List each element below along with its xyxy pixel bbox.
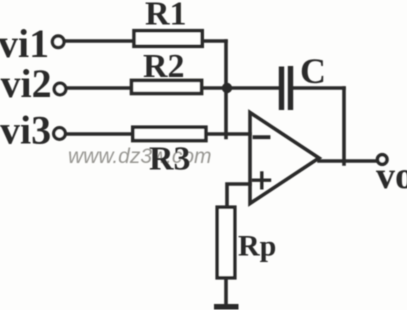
terminal vi2 [54,83,66,95]
svg-text:R1: R1 [145,0,187,33]
op-amp plus pin mark [260,173,263,188]
op-amp U1 [250,113,319,204]
resistor R2 [132,80,202,93]
resistor R3 [133,127,206,140]
junction node dot [222,83,232,93]
wire op-amp output to vo terminal [319,159,376,163]
ground [214,304,239,310]
wire Rp to ground [224,278,228,305]
svg-text:vo: vo [376,155,407,197]
resistor Rp [217,207,235,278]
svg-text:Rp: Rp [238,230,276,263]
wire vi2 terminal to R2 [67,86,131,90]
resistor R1 [134,31,202,47]
terminal vi1 [52,36,64,48]
svg-text:vi1: vi1 [0,21,49,66]
wire R3 to inverting input [208,132,251,136]
svg-text:vi2: vi2 [1,61,52,106]
wire vi1 terminal to R1 [65,39,133,43]
wire vi3 terminal to R3 [66,132,132,136]
svg-text:C: C [300,51,326,91]
wire bus vertical to inverting input [224,41,228,138]
wire feedback vertical [342,88,346,164]
terminal vi3 [54,128,66,140]
svg-text:R2: R2 [143,48,185,85]
terminal vo [377,155,387,165]
svg-text:vi3: vi3 [0,108,51,153]
wire R1 to bus corner [204,39,226,43]
wire R2 to node [204,86,228,90]
svg-text:R3: R3 [149,141,191,178]
capacitor C plates [279,67,284,111]
wire capacitor to feedback corner [294,86,345,90]
wire node to capacitor [227,86,278,90]
wire non-inverting input to Rp [227,184,250,208]
op-amp minus pin mark [255,135,269,139]
